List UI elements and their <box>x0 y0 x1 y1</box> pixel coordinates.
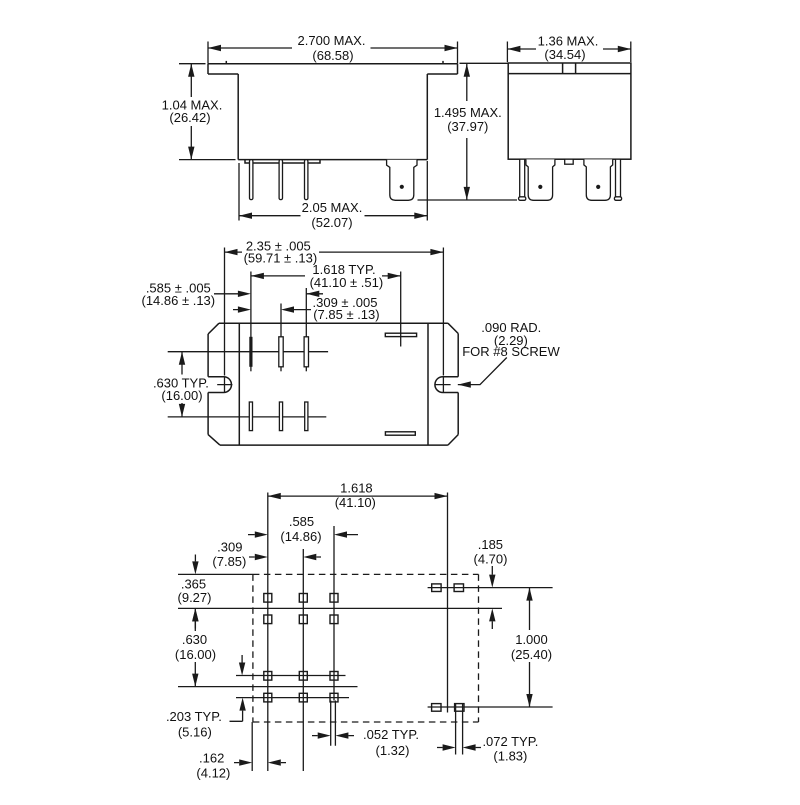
flange left edge lower <box>207 393 209 435</box>
right slot centre cross <box>435 377 450 392</box>
pin row 2 centreline <box>168 416 327 418</box>
dimension .630 TYP arrows <box>181 352 183 417</box>
relay case outline (dashed) top edge <box>253 573 479 575</box>
pad row2 col2 <box>299 615 307 624</box>
dimension 2.05 MAX dimension line <box>239 215 427 217</box>
svg-text:(14.86): (14.86) <box>280 529 321 544</box>
hole column 2 construction line <box>302 549 304 771</box>
dimension 1.495 MAX arrowheads <box>464 64 470 200</box>
svg-text:(59.71 ± .13): (59.71 ± .13) <box>244 251 318 266</box>
leader for .090 RAD screw slot <box>458 358 507 385</box>
hole column 1 construction line <box>267 493 269 772</box>
flange outline bottom edge <box>220 444 448 446</box>
flange fold line right <box>427 323 429 445</box>
right blade terminal (front view) <box>584 159 613 200</box>
left thin pin foot <box>519 197 526 201</box>
svg-text:(4.12): (4.12) <box>196 766 230 781</box>
pin column 1 extension line <box>250 272 252 372</box>
svg-text:(41.10): (41.10) <box>335 495 376 510</box>
svg-text:.052 TYP.: .052 TYP. <box>363 727 419 742</box>
1.618 right extension line through blade pad <box>400 272 402 347</box>
blade pad top (bottom view) <box>385 333 416 336</box>
svg-text:.162: .162 <box>199 750 224 765</box>
dimension 1.04 MAX dimension line <box>190 64 192 160</box>
svg-text:2.700 MAX.: 2.700 MAX. <box>298 33 366 48</box>
svg-text:2.05 MAX.: 2.05 MAX. <box>302 200 363 215</box>
pad row4 col2 <box>299 693 307 702</box>
dimension 2.700 MAX extension lines <box>208 42 458 64</box>
dimension .585 arrows <box>248 534 358 536</box>
dimension .162 arrows <box>234 762 286 764</box>
flange step tick left <box>225 61 227 64</box>
flange right edge <box>457 64 459 74</box>
left mounting slot <box>208 377 231 393</box>
pin row1 col2 <box>279 337 283 367</box>
svg-text:(25.40): (25.40) <box>511 647 552 662</box>
dimension 1.618 TYP arrowheads <box>251 273 401 279</box>
node line A : blade hole row top <box>428 587 553 589</box>
pin 3 (side view) <box>305 160 308 200</box>
left thin pin (front view) <box>520 159 525 198</box>
svg-text:(5.16): (5.16) <box>178 725 212 740</box>
node line F : blade hole row bottom <box>428 706 553 708</box>
svg-text:(34.54): (34.54) <box>544 47 585 62</box>
2.35 left extension line <box>224 248 226 376</box>
svg-text:(26.42): (26.42) <box>169 110 210 125</box>
pin row 1 centreline <box>168 351 328 353</box>
dimension .630 dimension line <box>194 608 196 686</box>
blade terminal hole <box>400 185 404 189</box>
relay case outline (dashed) left edge <box>252 574 254 722</box>
dimension 1.36 MAX arrowheads <box>507 46 630 52</box>
flange underside left <box>208 73 238 75</box>
svg-text:.072 TYP.: .072 TYP. <box>482 734 538 749</box>
dimension 1.36 MAX extension lines <box>507 42 630 63</box>
.072 slot lines under right blade pad <box>456 704 463 755</box>
relay cover outline (front view) <box>508 63 631 159</box>
.052 slot lines under column 3 <box>331 701 336 746</box>
pin row2 col1 <box>249 402 252 431</box>
relay case outline (dashed) bottom edge <box>253 721 479 723</box>
dimension 1.04 MAX arrowheads <box>188 64 194 160</box>
hole column 3 construction line <box>333 526 335 701</box>
flange fold line left <box>238 323 240 445</box>
dimension 2.700 MAX dimension line <box>208 47 458 49</box>
dimension 1.618 arrowheads <box>268 493 448 499</box>
svg-text:(37.97): (37.97) <box>447 119 488 134</box>
blade hole column construction line <box>447 493 449 713</box>
dimension .309 arrows <box>249 556 321 558</box>
pad row1 col2 <box>299 594 307 603</box>
pad row3 col1 <box>264 672 272 681</box>
flange top edge <box>208 63 458 65</box>
blade pad bottom (bottom view) <box>385 432 415 435</box>
pin row2 col2 <box>279 402 282 431</box>
dimension 1.618 dimension line <box>268 495 448 497</box>
flange left edge <box>207 64 209 74</box>
node line E : pin row 4 centreline <box>236 697 349 699</box>
svg-text:1.000: 1.000 <box>515 632 548 647</box>
dimension .185 arrows <box>491 566 493 629</box>
dimension 1.618 TYP dimension line <box>251 275 401 277</box>
svg-text:.585: .585 <box>289 514 314 529</box>
svg-text:(1.32): (1.32) <box>376 743 410 758</box>
svg-text:(52.07): (52.07) <box>311 215 352 230</box>
blade pad bottom-left <box>432 704 441 712</box>
svg-text:1.495 MAX.: 1.495 MAX. <box>434 105 502 120</box>
pad row1 col3 <box>330 594 338 603</box>
pin row1 col3 <box>304 337 308 367</box>
pin column 2 extension line <box>280 304 282 372</box>
dimension 2.05 MAX arrowheads <box>239 213 427 219</box>
dimension 2.35 dimension line <box>225 251 444 253</box>
dimension 2.35 arrowheads <box>225 249 444 255</box>
right blade hole <box>596 185 600 189</box>
flange chamfer top-right <box>448 323 458 333</box>
pad row2 col3 <box>330 615 338 624</box>
svg-text:.309: .309 <box>217 539 242 554</box>
node line D : reference row .630 <box>178 686 358 688</box>
case top edge extension (solid, for .365) <box>178 573 253 575</box>
node line B : reference row .365 <box>178 607 502 609</box>
pad row4 col3 <box>330 693 338 702</box>
relay body right edge <box>426 74 428 160</box>
dimension .052 TYP arrows <box>312 735 354 737</box>
relay body left edge <box>237 74 239 160</box>
pad row4 col1 <box>264 693 272 702</box>
dimension 1.000 dimension line <box>529 588 531 707</box>
cover seam line <box>508 73 631 75</box>
quick-connect blade terminal (side view) <box>387 160 417 201</box>
pad row3 col3 <box>330 672 338 681</box>
pin 2 (side view) <box>279 160 282 200</box>
relay case outline (dashed) right edge <box>478 574 480 722</box>
svg-text:.203 TYP.: .203 TYP. <box>166 709 222 724</box>
blade pad bottom-right <box>455 704 464 712</box>
pad row3 col2 <box>299 672 307 681</box>
svg-text:(1.83): (1.83) <box>493 749 527 764</box>
base strip under pins <box>245 160 320 163</box>
flange underside right <box>427 73 457 75</box>
dimension .203 TYP leader and up arrow at line E <box>230 711 243 722</box>
centre tab <box>565 159 574 164</box>
dimension 1.495 MAX extension lines <box>418 63 518 200</box>
right thin pin (front view) <box>616 159 621 198</box>
dimension 1.04 MAX extension lines <box>179 64 236 160</box>
flange right edge upper <box>457 334 459 377</box>
dimension 1.36 MAX dimension line <box>507 48 630 50</box>
pad row1 col1 <box>264 594 272 603</box>
svg-text:(14.86 ± .13): (14.86 ± .13) <box>141 293 215 308</box>
flange chamfer bottom-left <box>208 435 220 446</box>
flange step tick right <box>442 61 444 64</box>
pin row2 col3 <box>305 402 308 431</box>
pin row1 col1 (coil pin, filled) <box>249 337 252 367</box>
left blade hole <box>538 185 542 189</box>
svg-text:(7.85): (7.85) <box>212 554 246 569</box>
pin column 3 extension line <box>305 288 307 371</box>
dimension .630 arrowheads <box>192 608 198 686</box>
dimension .072 TYP arrows <box>437 747 481 749</box>
dimension .365 arrows <box>194 555 196 629</box>
case left edge extension (solid, for .162) <box>251 722 253 771</box>
svg-text:(7.85 ± .13): (7.85 ± .13) <box>313 307 379 322</box>
blade pad top-right <box>454 584 463 592</box>
svg-text:.185: .185 <box>478 537 503 552</box>
cover top notch tick left <box>562 63 564 74</box>
pad row2 col1 <box>264 615 272 624</box>
dimension .585 leader and arrows <box>214 293 323 295</box>
svg-text:(16.00): (16.00) <box>161 388 202 403</box>
svg-text:(16.00): (16.00) <box>175 647 216 662</box>
dimension 2.700 MAX arrowheads <box>208 45 458 51</box>
dimension 1.000 arrowheads <box>526 588 532 707</box>
flange right edge lower <box>457 393 459 435</box>
svg-text:(9.27): (9.27) <box>178 590 212 605</box>
svg-text:(41.10 ± .51): (41.10 ± .51) <box>310 275 384 290</box>
2.35 right extension line <box>442 248 444 376</box>
dimension .203 TYP down arrow at line C <box>241 655 243 663</box>
flange chamfer bottom-right <box>448 435 458 446</box>
left blade terminal (front view) <box>526 159 555 200</box>
flange outline top edge <box>219 322 448 324</box>
svg-text:.630: .630 <box>182 632 207 647</box>
pin 1 (side view) <box>250 160 253 200</box>
dimension 1.495 MAX dimension line <box>466 64 468 200</box>
dimension 2.05 MAX extension lines <box>239 161 427 221</box>
svg-text:(68.58): (68.58) <box>312 48 353 63</box>
svg-text:1.618: 1.618 <box>340 481 373 496</box>
right thin pin foot <box>614 197 621 201</box>
flange left edge upper <box>207 334 209 377</box>
left slot centre cross <box>217 377 232 392</box>
cover top notch tick right <box>575 63 577 74</box>
blade pad top-left <box>432 584 441 592</box>
relay body bottom edge <box>238 159 427 161</box>
right mounting slot <box>435 377 458 393</box>
node line C : pin row 3 centreline <box>236 675 346 677</box>
svg-text:(4.70): (4.70) <box>474 552 508 567</box>
flange chamfer top-left <box>208 323 219 334</box>
dimension .309 leader and arrows <box>233 309 311 311</box>
svg-text:FOR #8 SCREW: FOR #8 SCREW <box>462 344 560 359</box>
